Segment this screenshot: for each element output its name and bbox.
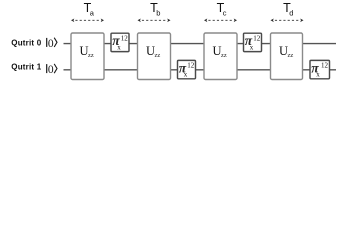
gate pi_x^12 (1, top wire) xyxy=(111,33,129,52)
svg-text:d: d xyxy=(289,8,293,17)
svg-text:x: x xyxy=(184,71,188,79)
duration arrow T_a xyxy=(71,18,104,22)
svg-text:x: x xyxy=(250,43,254,51)
svg-text:zz: zz xyxy=(88,52,94,59)
wire qutrit 0 xyxy=(64,43,337,45)
duration arrow T_d xyxy=(271,18,304,22)
svg-text:c: c xyxy=(223,8,227,17)
gate U_zz (a) xyxy=(71,33,104,80)
svg-text:b: b xyxy=(156,8,160,17)
gate U_zz (d) xyxy=(271,33,303,80)
gate U_zz (c) xyxy=(204,33,237,80)
gate pi_x^12 (4, bottom wire) xyxy=(310,60,330,79)
label T_d xyxy=(283,1,293,17)
svg-text:12: 12 xyxy=(121,34,129,42)
duration arrow T_b xyxy=(138,18,171,22)
svg-text:Qutrit 1: Qutrit 1 xyxy=(11,62,41,71)
gate U_zz (b) xyxy=(138,33,171,80)
label T_c xyxy=(217,1,227,17)
duration arrow T_c xyxy=(204,18,237,22)
svg-text:zz: zz xyxy=(221,52,227,59)
svg-text:zz: zz xyxy=(288,52,294,59)
svg-text:a: a xyxy=(90,8,95,17)
svg-text:Qutrit 0: Qutrit 0 xyxy=(11,38,41,47)
label T_b xyxy=(150,1,160,17)
svg-text:zz: zz xyxy=(155,52,161,59)
svg-text:x: x xyxy=(117,43,121,51)
label T_a xyxy=(84,1,95,17)
svg-text:0: 0 xyxy=(48,38,54,50)
gate pi_x^12 (2, bottom wire) xyxy=(178,60,196,79)
svg-text:12: 12 xyxy=(321,62,329,70)
ket |0> qutrit 1 xyxy=(47,64,57,76)
ket |0> qutrit 0 xyxy=(47,38,57,50)
wire qutrit 1 xyxy=(64,69,337,71)
svg-text:12: 12 xyxy=(253,34,261,42)
svg-text:12: 12 xyxy=(187,62,195,70)
gate pi_x^12 (3, top wire) xyxy=(244,33,262,52)
svg-text:x: x xyxy=(316,71,320,79)
svg-text:0: 0 xyxy=(48,64,54,76)
